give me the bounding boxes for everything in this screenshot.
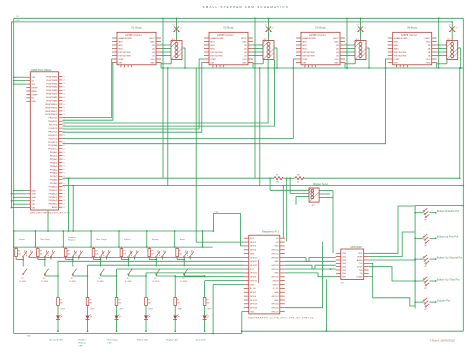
svg-text:CH6: CH6 [342,273,347,275]
svg-text:57: 57 [63,197,65,199]
wire arduino bottom drop [47,210,49,232]
svg-text:MS3: MS3 [210,48,215,50]
svg-text:RST/SLP/EN: RST/SLP/EN [302,55,315,57]
svg-text:MS1: MS1 [118,41,123,43]
wire GND top rail [12,21,453,23]
svg-text:GPIO14: GPIO14 [271,250,279,252]
resistor R15 pullup [148,247,154,260]
svg-text:MS2: MS2 [210,45,215,47]
resistor R25 LED series [203,298,209,306]
wire LED D5 feed to RPi [174,275,243,297]
wire 2.2k net from button rail to RPi [213,211,244,246]
wire LED D2 to gnd rail [87,320,89,333]
svg-text:DIR: DIR [210,62,214,64]
svg-text:PK5(A13): PK5(A13) [49,196,58,199]
wire STEP2 arduino to U2 [63,59,205,129]
svg-text:TL-3305: TL-3305 [180,281,187,283]
svg-text:3V3: 3V3 [32,84,36,86]
svg-text:27: 27 [63,94,65,96]
svg-text:10k: 10k [40,254,43,256]
switch S6 [152,250,166,283]
svg-text:44: 44 [63,152,65,154]
svg-text:VDD: VDD [334,59,339,61]
svg-text:GND: GND [426,41,431,43]
svg-text:R?: R? [95,251,97,253]
svg-text:TL-3305: TL-3305 [125,281,132,283]
svg-text:GPIO7: GPIO7 [272,284,279,286]
wire riser U3 X-symbol feed [360,17,362,40]
svg-text:55: 55 [63,190,65,192]
svg-text:T-Ruins 30/09/2018: T-Ruins 30/09/2018 [430,341,456,343]
svg-text:R?: R? [118,300,120,302]
svg-text:GPIO19: GPIO19 [250,304,258,306]
wire RPi right risers [282,177,287,241]
svg-text:60: 60 [63,207,65,209]
capacitor C3 [357,25,367,32]
svg-text:PH6(PWM9): PH6(PWM9) [46,100,58,102]
svg-text:PE1(TX0): PE1(TX0) [49,118,58,120]
wire connector JP2 to lower bus [274,48,278,69]
svg-text:MCP3008: MCP3008 [351,246,363,249]
resistor R12 pullup [64,247,70,260]
svg-text:PB6(PWM12): PB6(PWM12) [45,111,58,113]
svg-text:DOUT: DOUT [357,266,363,268]
svg-text:GND: GND [242,41,247,43]
svg-text:GPIO17: GPIO17 [250,257,258,259]
svg-text:VIN: VIN [32,201,36,203]
wire pot 2 connections [414,237,436,239]
svg-text:Follow LED: Follow LED [137,339,149,341]
svg-text:R8: R8 [297,174,299,176]
svg-text:330: 330 [148,303,151,305]
svg-text:STEP: STEP [118,59,124,61]
svg-text:VMOT: VMOT [333,38,340,40]
svg-text:Non Origin: Non Origin [108,338,119,341]
svg-text:42: 42 [63,145,65,147]
svg-text:GND: GND [334,41,339,43]
connector JP7 Bottom up First Pot [423,234,429,247]
svg-text:GND: GND [274,273,279,275]
resistor R16 pullup [176,247,182,260]
svg-text:GPIO22: GPIO22 [250,265,258,267]
svg-text:GND: GND [334,62,339,64]
wire +5V top rail [14,17,464,19]
svg-text:MS1: MS1 [302,41,307,43]
wire LED D4 feed to RPi [145,273,244,298]
svg-text:GND: GND [32,101,37,103]
LED D2 [86,306,95,320]
wire button feed rail [13,246,213,248]
LED D5 [173,306,182,320]
wire left vertical +5V [13,18,15,231]
svg-text:TL-3305: TL-3305 [152,281,159,283]
node label Non Origin LED [108,338,119,344]
resistor R10 pullup [15,247,21,260]
svg-text:GND: GND [32,197,37,199]
svg-text:DGND: DGND [357,276,363,278]
svg-text:2A: 2A [244,47,247,50]
LED D3 [115,306,124,320]
resistor R7 [274,174,283,183]
svg-text:51: 51 [63,176,65,178]
svg-text:GPIO5: GPIO5 [250,292,257,294]
LED D1 [56,306,65,320]
svg-text:VIN: VIN [32,77,36,79]
svg-text:ENABLE/GND: ENABLE/GND [210,37,224,40]
svg-text:GPIO27: GPIO27 [250,261,258,263]
svg-text:PF5(A5): PF5(A5) [50,168,58,171]
svg-text:R?: R? [179,251,181,253]
svg-text:Bottom up First Pot: Bottom up First Pot [437,236,459,239]
svg-text:+5V: +5V [179,28,183,30]
svg-text:VIN: VIN [32,204,36,206]
svg-text:23: 23 [63,80,65,82]
svg-text:VDD: VDD [426,59,431,61]
svg-text:ENABLE/GND: ENABLE/GND [118,37,132,40]
svg-text:1B: 1B [428,55,431,57]
connector JP8 Bottom Up Second Pot [423,255,429,268]
svg-text:R?: R? [123,251,125,253]
wire LED D4 to gnd rail [145,320,147,333]
svg-text:MS2: MS2 [394,45,399,47]
svg-text:S?: S? [127,278,129,280]
capacitor C4 [449,25,459,32]
svg-text:AREF: AREF [32,90,38,93]
wire STEP4 arduino to U4 [63,59,388,144]
wire LED D5 to gnd rail [174,320,176,333]
wire switch S3 net [66,258,88,277]
wire U4 right gnd jog to connector [437,60,447,69]
svg-text:Bottom Up Third Pot: Bottom Up Third Pot [437,278,460,281]
svg-text:ID_SD: ID_SD [250,288,256,290]
svg-text:43: 43 [63,149,65,151]
svg-text:MS1: MS1 [394,41,399,43]
svg-text:Wiggler Servo: Wiggler Servo [313,183,329,186]
svg-text:PF6(A6): PF6(A6) [50,172,58,175]
svg-text:28: 28 [63,97,65,99]
wire switch S2 net [38,258,58,277]
svg-text:PD3(TX1): PD3(TX1) [48,138,57,140]
wire net to U2 connector b [63,60,275,127]
svg-text:2B: 2B [152,45,155,47]
svg-text:PH3(PWM6): PH3(PWM6) [46,90,58,92]
svg-text:PE4(PWM2): PE4(PWM2) [46,76,57,78]
svg-text:R?: R? [151,251,153,253]
svg-text:A4988 Carrier: A4988 Carrier [217,34,234,37]
wire riser U4 X-symbol feed [451,21,453,40]
svg-text:2A: 2A [152,47,155,50]
wire bottom GND rail [14,231,464,334]
svg-text:GPIO10: GPIO10 [250,273,258,275]
wire connector JP4 to lower bus [458,48,462,69]
svg-text:GPIO3: GPIO3 [250,246,257,248]
svg-text:SMALL STEPPER ARM SCHEMATICS: SMALL STEPPER ARM SCHEMATICS [203,5,289,9]
svg-text:GND: GND [274,292,279,294]
connector JP1 (motor header) [171,39,182,60]
svg-text:PK2(A10): PK2(A10) [49,185,58,188]
svg-text:ENABLE/GND: ENABLE/GND [302,37,316,40]
connector JP9 Bottom Up Third Pot [423,277,429,290]
svg-text:VDD: VDD [150,59,155,61]
svg-text:Non Origin: Non Origin [96,238,107,241]
wire LED D3 to gnd rail [116,320,118,333]
resistor R24 LED series [174,298,180,306]
svg-text:25: 25 [63,87,65,89]
svg-text:5V: 5V [32,81,35,83]
wire bus under modules [161,67,463,69]
svg-text:RST/SLP/EN: RST/SLP/EN [302,52,315,54]
wire feeds to RPi left top [196,68,244,242]
svg-text:10k: 10k [68,254,71,256]
wire arduino left power stubs [11,76,27,208]
wire servo to ADC [319,191,333,254]
svg-text:30: 30 [63,104,65,106]
wire servo feed elbows [269,177,309,204]
svg-text:5V: 5V [276,238,279,240]
svg-text:TL-3305: TL-3305 [41,281,48,283]
svg-text:Save LED: Save LED [196,339,206,341]
svg-text:R?: R? [206,300,208,302]
svg-text:A4988 Carrier: A4988 Carrier [309,34,326,37]
wire STEP1 arduino to U1 [63,59,113,117]
resistor R8 [295,174,304,183]
wire U1 motor lines to connector [161,45,171,56]
svg-text:PF7(A7): PF7(A7) [50,175,58,178]
svg-text:Endless: Endless [79,339,88,341]
connector JP4 (motor header) [447,39,458,60]
wire LED D6 to gnd rail [204,320,206,333]
wire riser U4 from +5V rail [438,17,440,68]
svg-text:GPIO26: GPIO26 [250,307,258,309]
svg-text:Follow: Follow [124,239,131,241]
svg-text:Not Used LED: Not Used LED [49,338,63,341]
svg-text:VDD: VDD [358,253,363,255]
svg-text:R?: R? [18,251,20,253]
svg-text:CH4: CH4 [342,267,347,269]
wire button rail [13,230,214,247]
connector JP3 (motor header) [355,39,366,60]
wire RPi SPI to MCP3008 [285,258,336,277]
wire riser U1 gnd drop [167,67,169,185]
svg-text:3k: 3k [297,181,299,183]
svg-text:GND: GND [250,253,255,255]
svg-text:GND: GND [426,62,431,64]
svg-text:3.3k: 3.3k [276,181,280,183]
svg-text:GPIO21: GPIO21 [271,311,279,313]
svg-text:01-Body: 01-Body [131,25,142,29]
svg-text:CLK: CLK [359,263,364,265]
wire riser U1 from +5V rail [162,17,164,178]
wire pot feed bus [415,205,464,309]
svg-text:330: 330 [206,303,209,305]
svg-text:TL-3305: TL-3305 [69,281,76,283]
svg-text:MS2: MS2 [302,45,307,47]
svg-text:DIR: DIR [302,62,306,64]
wire GND mid line [63,185,465,232]
svg-text:PK0(A8): PK0(A8) [50,179,58,182]
svg-text:PK1(A9): PK1(A9) [50,182,58,185]
svg-text:C?: C? [357,25,359,27]
svg-text:LED?: LED? [119,309,124,311]
svg-text:1B: 1B [152,55,155,57]
svg-text:RASPBERRYPI-40-PIN-GPIO_PTH_GS: RASPBERRYPI-40-PIN-GPIO_PTH_GS_SHROUD [248,317,313,320]
svg-text:PB4(PWM10): PB4(PWM10) [45,104,58,106]
switch S2 [41,250,55,283]
wire LED D6 feed to RPi [204,275,244,297]
svg-text:59: 59 [63,204,65,206]
resistor R20 LED series [57,298,63,306]
svg-text:Not Used: Not Used [40,238,50,241]
svg-text:PH4(PWM7): PH4(PWM7) [46,94,58,96]
stepper driver module U4 [388,25,437,67]
svg-text:PK4(A12): PK4(A12) [49,192,58,195]
svg-text:3V3: 3V3 [250,238,254,240]
ADC IC7 MCP3008 [336,246,369,285]
svg-text:GPIO24: GPIO24 [271,269,279,271]
wire RPi gnd return drop [212,284,244,334]
svg-text:2A: 2A [336,47,339,50]
connector JP2 (motor header) [263,39,274,60]
svg-text:GND: GND [32,194,37,196]
svg-text:GPIO8: GPIO8 [272,280,279,282]
svg-text:STEP: STEP [302,59,308,61]
svg-text:JP?: JP? [424,309,427,311]
svg-text:LED?: LED? [61,309,66,311]
svg-text:R?: R? [148,300,150,302]
svg-text:GND: GND [16,20,21,22]
wire pot 1 connections [414,212,436,214]
svg-text:DIR: DIR [118,62,122,64]
svg-text:2A: 2A [428,47,431,50]
svg-text:IOREF: IOREF [32,94,39,96]
svg-text:54: 54 [63,186,65,188]
svg-text:330: 330 [89,303,92,305]
svg-text:RST/SLP/EN: RST/SLP/EN [394,55,407,57]
svg-text:GND: GND [32,190,37,192]
svg-text:Stepper Pot: Stepper Pot [437,300,451,303]
svg-text:STEP: STEP [210,59,216,61]
svg-text:VMOT: VMOT [149,38,156,40]
svg-text:Power: Power [19,238,25,241]
wire pot 5 connections [414,301,436,303]
svg-text:PG5(PWM4): PG5(PWM4) [46,83,58,85]
LED D6 [203,306,212,320]
wire switch S1 net [16,258,244,267]
capacitor C2 [265,25,275,32]
svg-text:GPIO25: GPIO25 [271,277,279,279]
svg-text:PF0(A0): PF0(A0) [50,151,58,154]
connector JP10 Stepper Pot [423,298,429,311]
svg-text:CH5: CH5 [342,270,347,272]
switch S7 [180,250,194,283]
wire DIR1 arduino to U1 [63,63,113,121]
svg-text:A4988 Carrier: A4988 Carrier [125,34,142,37]
svg-text:GND: GND [274,300,279,302]
svg-text:GPIO20: GPIO20 [271,307,279,309]
node label Follow LED [137,339,149,341]
svg-text:LED: LED [79,345,84,347]
svg-text:24: 24 [63,83,65,85]
svg-text:PK7(A15): PK7(A15) [49,203,58,206]
svg-text:10k: 10k [95,254,98,256]
svg-text:PB7(PWM13): PB7(PWM13) [45,114,58,116]
svg-text:45: 45 [63,155,65,157]
wire pot 4 connections [414,280,436,282]
wire U1 right gnd jog to connector [161,60,171,69]
svg-text:MS3: MS3 [118,48,123,50]
svg-text:TL-3305: TL-3305 [97,281,104,283]
svg-text:JP?: JP? [424,220,427,222]
svg-text:PK3(A11): PK3(A11) [49,189,58,192]
svg-text:CH0: CH0 [342,253,347,255]
resistor R13 pullup [92,247,98,260]
svg-text:S?: S? [21,278,23,280]
svg-text:LED?: LED? [207,309,212,311]
svg-text:GPIO9: GPIO9 [250,277,257,279]
svg-text:Raspberry Pi 3: Raspberry Pi 3 [262,229,280,233]
svg-text:LED: LED [108,342,113,344]
wire RPi bottom to gnd rail [242,242,323,331]
svg-text:PD0(SCL): PD0(SCL) [48,149,57,151]
svg-text:GND: GND [27,335,32,337]
svg-text:1A: 1A [152,51,155,54]
svg-text:Repeat: Repeat [68,239,75,242]
svg-text:PJ0(RX3): PJ0(RX3) [49,128,58,130]
svg-text:VDD: VDD [242,59,247,61]
svg-text:STEP: STEP [394,59,400,61]
svg-text:PK6(A14): PK6(A14) [49,199,58,202]
svg-text:GND: GND [274,261,279,263]
svg-text:CH1: CH1 [342,257,347,259]
stepper driver module U2 [204,25,253,67]
svg-text:VIN: VIN [32,208,36,210]
svg-text:AREF: AREF [52,206,58,209]
svg-text:RST/SLP/EN: RST/SLP/EN [210,55,223,57]
wire connector JP1 to lower bus [182,48,186,69]
svg-text:RST/SLP/EN: RST/SLP/EN [210,52,223,54]
svg-text:10k: 10k [18,254,21,256]
svg-text:52: 52 [63,180,65,182]
wire LED D1 feed to RPi [57,261,244,297]
wire left vertical GND [11,22,13,208]
svg-text:58: 58 [63,200,65,202]
wire U3 right gnd jog to connector [345,60,355,69]
connector JP5 Wiggler Servo [309,183,329,207]
svg-text:1B: 1B [336,55,339,57]
svg-text:GND: GND [250,284,255,286]
svg-text:GPIO16: GPIO16 [271,304,279,306]
svg-text:1A: 1A [428,51,431,54]
svg-text:RST/SLP/EN: RST/SLP/EN [118,55,131,57]
wire right vertical +5V [462,18,464,331]
resistor R23 LED series [145,298,151,306]
svg-text:Replay LED: Replay LED [166,339,178,341]
svg-text:Bottom Up Second Pot: Bottom Up Second Pot [437,257,463,260]
svg-text:R7: R7 [276,174,278,176]
svg-text:C?: C? [449,25,451,27]
switch S3 [69,250,83,283]
svg-text:GND: GND [242,62,247,64]
node label Replay LED [166,339,178,341]
svg-text:10k: 10k [151,254,154,256]
switch S5 [125,250,139,283]
wire U2 right gnd jog to connector [253,60,263,69]
svg-text:Save: Save [180,239,186,241]
svg-text:26: 26 [63,90,65,92]
svg-text:02-Body: 02-Body [223,25,234,29]
svg-text:ARDUINO-MEGA-2560_R3_PTH: ARDUINO-MEGA-2560_R3_PTH [30,212,70,215]
svg-text:VMOT: VMOT [425,38,432,40]
